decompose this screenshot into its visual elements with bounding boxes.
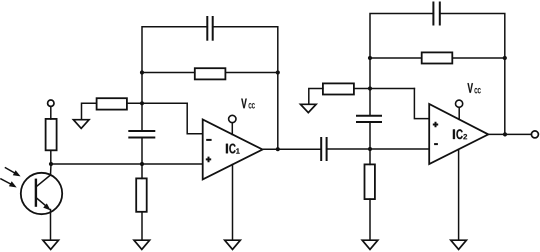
ground G3	[134, 240, 150, 249]
wire collector into phototransistor	[36, 164, 51, 187]
wire C3 to node signal 2 and IC2 inverting input	[327, 148, 430, 150]
label Vcc (IC2)	[467, 83, 472, 93]
wire IC2 output	[488, 133, 531, 135]
IC2 ground stem	[458, 149, 460, 240]
junction output feedback 2	[503, 56, 507, 60]
Vcc terminal IC1	[229, 115, 236, 122]
wire C4 to signal node 2	[369, 122, 371, 149]
wire node B vertical upper	[370, 14, 433, 116]
resistor R7 (feedback)	[422, 52, 453, 63]
resistor R4 (feedback)	[195, 68, 226, 79]
wire IC1 output	[263, 148, 322, 150]
capacitor C3 (coupling)	[320, 137, 322, 161]
node A junction (R2 level)	[140, 101, 144, 105]
wire R1 to node	[50, 150, 52, 164]
ground G7	[451, 240, 467, 249]
wire node to R5	[369, 149, 371, 164]
junction signal node 2	[368, 147, 372, 151]
wire node A vertical upper	[142, 27, 207, 131]
ground G2	[73, 120, 89, 129]
resistor R6 (node B to ground)	[323, 83, 354, 94]
node collector junction	[49, 162, 53, 166]
capacitor C5 (feedback)	[432, 2, 434, 26]
ground G5	[362, 240, 378, 249]
wire feedback top right and right vertical (stage 2)	[440, 14, 505, 135]
resistor R2 (to ground, node A)	[97, 98, 127, 109]
IC1 plus sign	[206, 157, 211, 163]
resistor R5 (signal node 2 to ground)	[365, 164, 375, 199]
wire feedback resistor row right (stage 2)	[452, 57, 505, 59]
Vcc terminal IC2	[456, 100, 463, 107]
IC2 minus sign	[434, 143, 438, 145]
junction node A feedback	[140, 70, 144, 74]
op-amp IC2	[429, 104, 488, 164]
wire feedback resistor row left (stage 2)	[370, 57, 422, 59]
wire feedback resistor row right	[225, 72, 277, 74]
wire C2 to signal wire	[141, 138, 143, 165]
transistor Q1 base bar	[35, 179, 37, 207]
wire feedback resistor row left	[142, 72, 195, 74]
light arrow 2	[0, 179, 10, 185]
junction node B feedback	[368, 56, 372, 60]
wire emitter to ground	[50, 210, 52, 241]
wire node A to IC1 inverting input	[187, 103, 203, 134]
label Vcc (IC1)	[241, 99, 246, 109]
wire node B to IC2 non-inverting input	[414, 89, 429, 119]
IC2 plus sign	[433, 122, 438, 128]
junction IC1 output	[276, 147, 280, 151]
label IC1	[226, 144, 228, 154]
terminal T2 (output)	[531, 131, 538, 138]
wire R2 right to node A and on to bend	[127, 102, 187, 104]
wire R2 left to ground	[82, 103, 97, 119]
op-amp IC1	[203, 120, 263, 180]
wire signal node to R3	[141, 164, 143, 178]
wire R3 to ground	[141, 212, 143, 240]
junction output feedback	[276, 70, 280, 74]
wire R6 left to ground	[309, 89, 323, 105]
junction node B (R6 level)	[368, 86, 372, 90]
terminal T1 (supply terminal above R1)	[48, 100, 54, 106]
capacitor C4 (series, node B to signal node 2)	[356, 115, 382, 117]
wire R6 right through node B to bend	[354, 88, 415, 90]
IC1 minus sign	[206, 139, 211, 141]
resistor R1	[46, 119, 57, 150]
wire T1 to R1	[50, 106, 52, 119]
phototransistor Q1 body circle	[21, 173, 62, 214]
wire feedback top right and right vertical (stage 1)	[213, 27, 278, 149]
transistor Q1 emitter with arrow	[36, 198, 48, 208]
junction IC2 output	[503, 132, 507, 136]
resistor R3 (signal node to ground)	[136, 178, 147, 211]
ground G6	[301, 104, 317, 112]
label IC2	[453, 129, 455, 139]
IC1 ground stem	[232, 165, 234, 241]
wire main signal (collector node to IC1 + input)	[51, 163, 203, 165]
capacitor C2 (series, node A to signal node)	[128, 130, 155, 132]
ground G1 (under phototransistor)	[43, 240, 59, 249]
wire R5 to ground	[369, 199, 371, 240]
light arrow 1	[5, 167, 15, 173]
capacitor C1 (feedback)	[206, 16, 208, 41]
ground G4	[225, 240, 241, 249]
node signal junction	[140, 162, 144, 166]
